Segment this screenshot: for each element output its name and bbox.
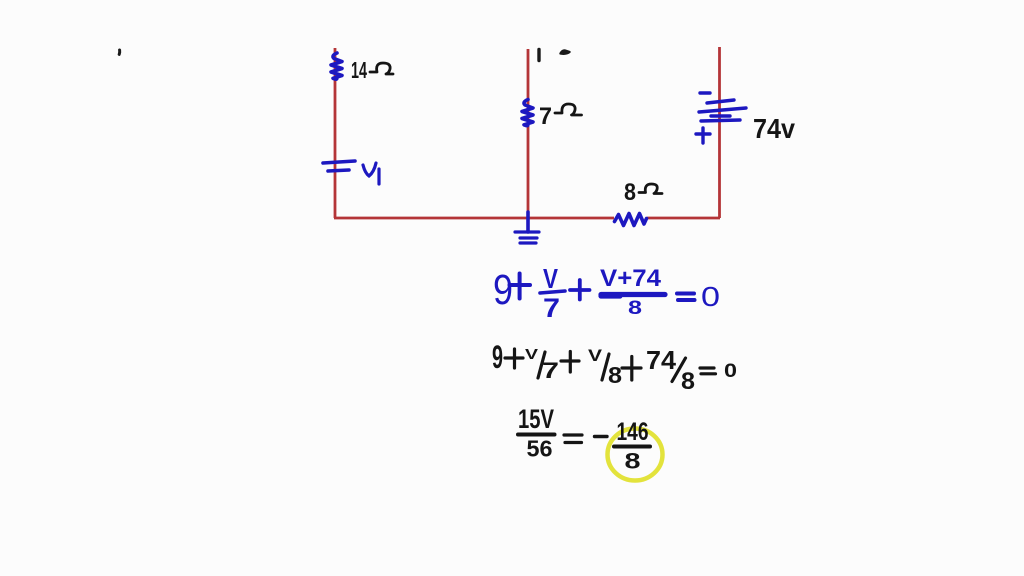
ground symbol: [526, 212, 530, 232]
black equation: 9+V/7+V/8+74/8=0: [492, 339, 737, 395]
wire right branch vertical: [718, 47, 721, 218]
svg-text:74: 74: [646, 345, 677, 375]
svg-text:74v: 74v: [753, 113, 795, 144]
eq2 slash 1: [538, 352, 545, 378]
eq2 plus 3: [622, 357, 641, 381]
svg-text:15V: 15V: [518, 404, 554, 434]
svg-text:56: 56: [527, 436, 553, 462]
svg-text:8: 8: [608, 362, 622, 388]
eq3 bar 146/8: [614, 445, 650, 449]
label v1: [363, 163, 376, 176]
svg-text:8: 8: [625, 449, 641, 474]
term +: [510, 274, 531, 299]
battery 74v plus sign: [696, 128, 710, 143]
svg-text:V: V: [525, 346, 538, 363]
svg-text:0: 0: [724, 360, 737, 382]
battery V1 plates: [323, 161, 355, 163]
eq2 plus 2: [561, 352, 579, 373]
eq3 bar 15V/56: [518, 433, 555, 437]
battery 74v minus sign: [700, 91, 710, 94]
svg-text:9: 9: [493, 266, 513, 314]
eq2 slash 3: [672, 358, 686, 382]
svg-text:V+74: V+74: [600, 265, 662, 292]
svg-text:14: 14: [351, 57, 367, 83]
svg-text:8: 8: [628, 298, 642, 319]
resistor R1 14ohm squiggle: [331, 53, 342, 79]
svg-text:8: 8: [624, 179, 636, 206]
wire bottom rail left segment: [334, 217, 614, 220]
partial cut-off text top middle: [537, 50, 540, 61]
eq2 plus 1: [505, 349, 523, 368]
svg-text:9: 9: [492, 339, 503, 375]
eq3 equals: [564, 435, 582, 443]
yellow highlight circle: [608, 429, 663, 481]
svg-text:V: V: [543, 263, 558, 294]
battery 74v plates: [707, 100, 734, 103]
stray tick mark top-left: [118, 50, 122, 54]
wire middle branch vertical: [527, 49, 530, 219]
eq2 equals: [700, 368, 716, 374]
equals: [677, 294, 695, 301]
svg-text:7: 7: [539, 103, 552, 130]
eq2 slash 2: [602, 354, 609, 380]
svg-text:146: 146: [617, 418, 649, 446]
plus: [570, 280, 590, 300]
svg-text:0: 0: [701, 281, 720, 312]
svg-text:V: V: [588, 346, 603, 365]
resistor R3 8ohm squiggle: [615, 214, 647, 226]
svg-text:7: 7: [542, 358, 559, 383]
wire bottom rail right segment: [647, 217, 720, 220]
svg-text:8: 8: [681, 368, 695, 395]
resistor R2 7ohm squiggle: [522, 100, 533, 126]
svg-text:7: 7: [543, 293, 560, 323]
wire left branch vertical: [334, 48, 337, 218]
blue equation: 9+ V/7 + (V+74)/8 = 0: [493, 263, 720, 323]
eq3 minus: [595, 435, 608, 438]
